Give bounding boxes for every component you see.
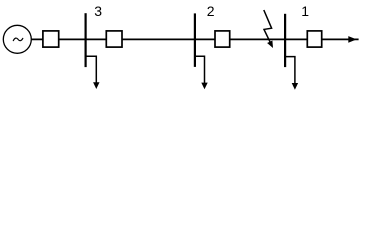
fault lightning bolt — [264, 10, 273, 48]
load L3 arrow — [93, 82, 99, 89]
load L3 wire — [86, 56, 96, 83]
svg-text:3: 3 — [94, 3, 102, 19]
label 1 — [301, 3, 309, 19]
load L2 arrow — [201, 83, 207, 90]
generator G1 — [3, 25, 31, 53]
outgoing feeder arrow — [348, 36, 356, 43]
load L2 wire — [195, 56, 204, 83]
breaker B2 — [106, 31, 122, 47]
breaker B1 (generator breaker) — [43, 31, 59, 47]
svg-text:1: 1 — [301, 3, 309, 19]
breaker B4 — [307, 31, 321, 47]
load L1 wire — [286, 57, 295, 84]
bus 3 — [84, 13, 86, 67]
svg-text:2: 2 — [207, 3, 215, 19]
label 3 — [94, 3, 102, 19]
label 2 — [207, 3, 215, 19]
breaker B3 — [215, 31, 230, 47]
bus 1 — [284, 14, 286, 67]
bus 2 — [194, 13, 196, 67]
wire main feeder line — [31, 38, 359, 40]
load L1 arrow — [292, 83, 298, 90]
